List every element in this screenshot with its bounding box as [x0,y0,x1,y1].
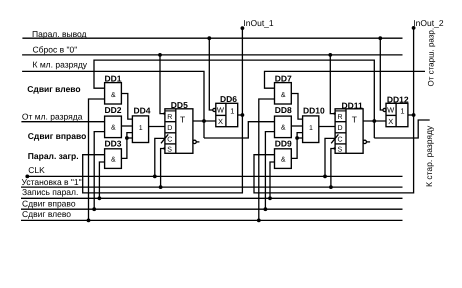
svg-text:Сдвиг влево: Сдвиг влево [27,84,80,94]
pin DD11.C dynamic-input slash [331,134,338,143]
node InOut_1 [243,18,274,28]
wire Сдвиг влево bus [21,219,403,221]
svg-text:DD3: DD3 [105,138,122,148]
wire DD5.Q output to DD6.X input [193,120,216,122]
wire От мл. разряда line to DD2 input 1 [21,121,104,123]
svg-text:W: W [217,105,225,114]
svg-text:CLK: CLK [28,165,45,175]
junction Запись парал. to DD3 riser [98,196,102,200]
svg-text:DD8: DD8 [275,105,292,115]
wire К мл. разряду line, riser down to Q1 node [22,71,204,138]
junction Запись парал. to DD9 riser [268,196,272,200]
wire От старш. разр. input line to DD7 input 1 [265,71,426,88]
wire DD9 input 2 from Запись парал. bus [270,162,275,198]
wire DD11.C from CLK bus [325,138,335,176]
svg-text:DD2: DD2 [105,105,122,115]
svg-text:Сброс в "0": Сброс в "0" [33,44,78,54]
svg-text:От мл. разряда: От мл. разряда [22,111,83,121]
junction DD9 output split to DD10 input 4 [295,136,299,140]
wire DD11.R from Сброс bus [330,55,336,115]
flip-flop DD11 [335,101,363,154]
wire Запись парал. bus [21,197,403,199]
wire DD12.W from Парал. вывод bus with inversion bubble [380,38,386,111]
svg-text:&: & [281,92,286,99]
svg-text:От старш. разр.: От старш. разр. [427,28,436,87]
svg-text:D: D [338,125,343,132]
wire DD2 output to DD4 input 2 [121,125,132,127]
wire DD5.C from CLK bus [155,138,165,176]
AND gate DD1 [105,73,122,104]
svg-text:Установка в "1": Установка в "1" [22,177,82,187]
junction Установка to DD11.S riser [329,185,333,189]
AND gate DD2 [105,105,122,137]
wire DD5.S from Установка bus [161,147,166,187]
svg-text:К мл. разряду: К мл. разряду [33,59,88,69]
junction Установка to DD5.S riser [159,185,163,189]
wire Q1 to DD8 input 1 [204,122,275,138]
net label К стар. разряду (rotated) [424,125,434,187]
svg-text:InOut_1: InOut_1 [243,18,274,28]
OR gate DD10 [303,106,325,143]
svg-text:Сдвиг вправо: Сдвиг вправо [22,198,76,208]
junction InOut_2 terminal dot [412,26,416,30]
svg-text:1: 1 [400,107,404,116]
junction Сдвиг вправо to DD2 riser [92,207,96,211]
svg-text:1: 1 [139,125,143,132]
svg-text:Сдвиг влево: Сдвиг влево [22,209,71,219]
wire DD6 output to InOut_1 [238,114,243,116]
junction Сброс to DD11.R riser [328,53,332,57]
net label Сброс в "0" [33,44,78,54]
node InOut_2 [413,18,444,28]
svg-text:InOut_2: InOut_2 [413,18,444,28]
wire CLK bus [27,175,402,177]
wire DD5.R from Сброс bus [160,55,166,115]
net label Парал. вывод [32,29,87,39]
net label Сдвиг влево (bold) [27,84,80,94]
buffer DD12 [386,95,409,127]
junction DD3 output split to DD4 input 4 [125,136,129,140]
wire Сдвиг вправо bus [21,208,403,210]
wire InOut_2 vertical riser down, left along y=192 up to DD9 input 1 [254,28,414,193]
svg-text:DD4: DD4 [134,106,151,116]
net label Сдвиг влево [22,209,71,219]
svg-text:W: W [387,105,395,114]
svg-text:&: & [111,92,116,99]
wire DD1 output to DD4 input 1 [121,94,132,120]
svg-text:Парал. загр.: Парал. загр. [28,151,79,161]
net label От старш. разр. (rotated) [427,28,436,87]
wire DD3 output to DD4 inputs 3 and 4 [121,133,132,159]
wire Парал. вывод bus [22,37,402,39]
svg-text:1: 1 [230,107,234,116]
flip-flop DD5 [165,100,193,154]
junction CLK to DD11.C riser [323,175,327,179]
junction Сброс to DD5.R riser [158,53,162,57]
svg-text:T: T [180,115,185,125]
net label К мл. разряду [33,59,88,69]
svg-text:T: T [352,115,357,125]
wire DD8 output to DD10 input 2 [291,125,302,127]
wire DD12 output to InOut_2 [408,114,414,116]
wire DD11.S from Установка bus [331,147,336,187]
wire InOut_1 vertical riser down to parallel-data feed, left along y=192 up to DD3 input 1 [83,28,243,193]
svg-text:DD6: DD6 [220,94,237,104]
pin DD5.C dynamic-input slash [161,134,168,143]
AND gate DD7 [275,73,292,104]
junction DD12 output on InOut_2 riser [412,113,416,117]
junction Сдвиг влево to DD1 riser [87,219,91,223]
svg-text:D: D [167,125,172,132]
svg-text:&: & [111,124,116,131]
net label CLK [28,165,45,175]
junction CLK left terminal dot [25,175,29,179]
junction Q1 output node on К мл. разряду riser [202,119,206,123]
pin DD5 inverted output bubble and stub [193,140,199,143]
junction CLK to DD5.C riser [153,175,157,179]
wire DD10 output to DD11.D [319,126,335,128]
AND gate DD3 [105,138,122,168]
svg-text:&: & [111,156,116,163]
svg-text:1: 1 [309,125,313,132]
svg-text:X: X [218,117,223,126]
svg-text:DD7: DD7 [275,73,292,83]
wire DD7 input 2 from Сдвиг влево bus [259,99,275,220]
svg-text:Запись парал.: Запись парал. [22,187,78,197]
net label Сдвиг вправо [22,198,76,208]
junction Сдвиг вправо to DD8 riser [264,207,268,211]
wire DD9 output to DD10 inputs 3 and 4 [291,133,302,159]
svg-text:Сдвиг вправо: Сдвиг вправо [28,131,86,141]
wire Сброс bus [22,54,402,56]
svg-text:R: R [167,114,172,121]
wire DD1 input 2 from Сдвиг влево bus [89,99,105,220]
wire DD3 input 2 from Запись парал. bus [99,162,104,198]
pin DD11 inverted output bubble and stub [363,140,370,143]
wire DD7 output to DD10 input 1 [291,94,302,120]
buffer DD6 [216,94,238,127]
svg-text:C: C [167,136,172,143]
svg-text:DD1: DD1 [105,73,122,83]
svg-text:DD10: DD10 [303,106,325,116]
svg-text:R: R [338,114,343,121]
junction Q2 output node on feedback riser [372,119,376,123]
wire DD4 output to DD5.D [149,126,165,128]
AND gate DD9 [275,138,292,168]
junction Парал. вывод to DD12.W riser [378,36,382,40]
junction Сдвиг влево to DD7 riser [257,219,261,223]
net label Сдвиг вправо (bold) [28,131,86,141]
svg-text:К стар. разряду: К стар. разряду [424,125,434,187]
wire Q2 to К стар. разряду [374,120,429,138]
AND gate DD8 [275,105,292,137]
svg-text:&: & [281,156,286,163]
wire DD8 input 2 from Сдвиг вправо bus [265,132,274,210]
wire Установка bus [21,186,403,188]
OR gate DD4 [132,106,150,143]
net label Установка в "1" [22,177,82,187]
wire DD11.Q output to DD12.X input [363,120,386,122]
svg-text:C: C [338,136,343,143]
junction Парал. вывод to DD6.W riser [207,36,211,40]
net label От мл. разряда [22,111,83,121]
svg-text:S: S [167,147,172,154]
net label Парал. загр. (bold) [28,151,79,161]
net label Запись парал. [22,187,78,197]
svg-text:Парал. вывод: Парал. вывод [32,29,87,39]
junction InOut_1 terminal dot [241,26,245,30]
wire DD2 input 2 from Сдвиг вправо bus [94,132,104,210]
junction DD6 output on InOut_1 riser [241,113,245,117]
svg-text:DD9: DD9 [275,138,292,148]
wire DD11 output to DD1 input 1 (upper feedback line y=60) [94,60,374,138]
svg-text:X: X [388,117,393,126]
wire DD6.W from Парал. вывод bus with inversion bubble [209,38,216,111]
svg-text:&: & [281,124,286,131]
svg-text:S: S [338,147,343,154]
